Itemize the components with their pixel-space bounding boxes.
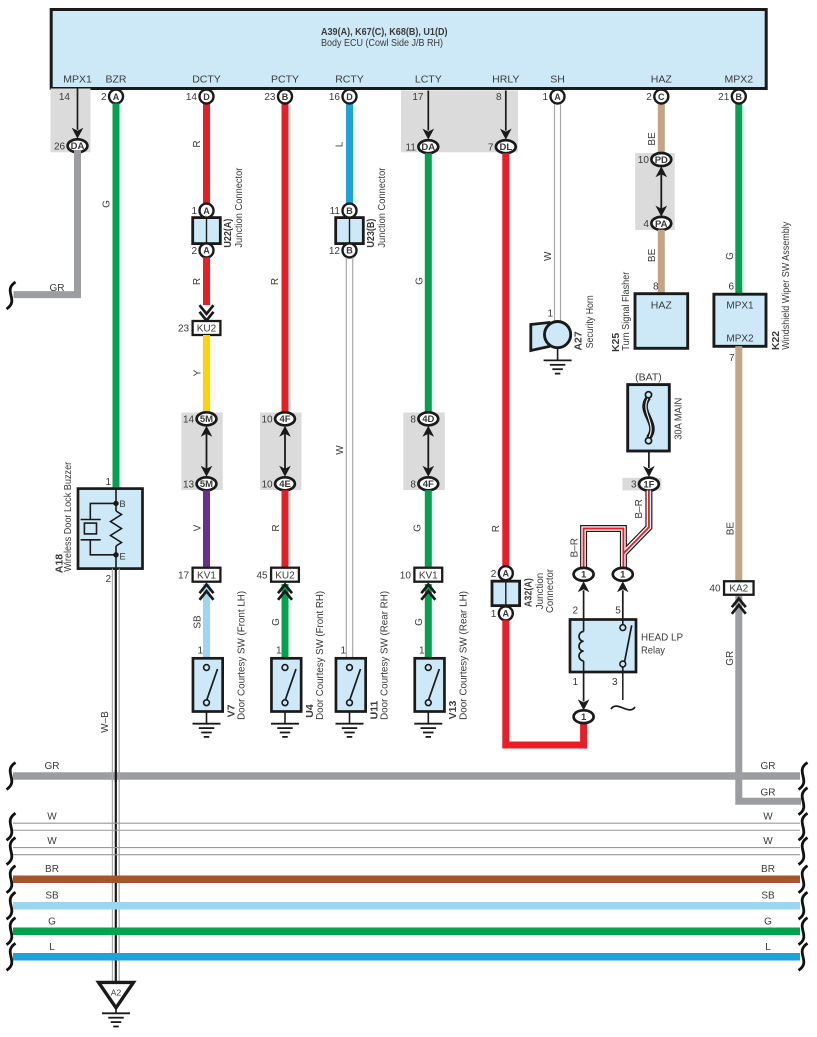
svg-text:23: 23 — [178, 324, 190, 335]
svg-text:A: A — [203, 246, 210, 256]
break symbol left GR wire — [7, 282, 16, 309]
svg-text:2: 2 — [191, 246, 197, 257]
svg-text:KV1: KV1 — [419, 570, 438, 581]
svg-text:14: 14 — [186, 92, 198, 103]
svg-text:PD: PD — [655, 155, 668, 166]
break left G — [7, 918, 16, 945]
wire L RCTY — [346, 104, 353, 204]
svg-text:B: B — [282, 92, 289, 102]
svg-text:RCTY: RCTY — [335, 74, 364, 86]
connector box KV1 pin 10 — [414, 568, 442, 582]
door courtesy switch V13 — [415, 658, 445, 711]
svg-text:13: 13 — [183, 479, 195, 490]
svg-text:L: L — [49, 942, 55, 953]
svg-text:G: G — [413, 524, 424, 532]
connector box KV1 pin 17 — [193, 568, 221, 582]
wire R HRLY upper — [502, 153, 509, 566]
wire BE MPX2 — [735, 346, 742, 581]
svg-text:4F: 4F — [279, 414, 290, 425]
wire HRLY pin8 to DL — [505, 91, 507, 131]
break right W2 — [799, 838, 808, 865]
svg-text:Y: Y — [193, 369, 204, 376]
svg-text:1: 1 — [547, 309, 553, 320]
svg-text:4F: 4F — [423, 479, 434, 490]
bus wire W upper — [13, 822, 800, 824]
svg-text:GR: GR — [45, 761, 60, 772]
svg-text:PA: PA — [655, 219, 668, 230]
break left GR — [7, 763, 16, 790]
svg-text:BE: BE — [647, 248, 658, 262]
svg-text:10: 10 — [638, 155, 650, 166]
bus wire SB — [13, 902, 800, 910]
shaded strip 1F — [622, 478, 661, 491]
connector 4F pin 8 — [418, 477, 438, 490]
shaded area 5M — [181, 413, 223, 491]
svg-text:W: W — [763, 812, 773, 823]
svg-text:SB: SB — [193, 615, 204, 629]
svg-text:26: 26 — [54, 141, 66, 152]
svg-text:HAZ: HAZ — [651, 74, 673, 86]
svg-text:B: B — [736, 92, 743, 102]
svg-text:14: 14 — [59, 92, 71, 103]
svg-text:BZR: BZR — [106, 74, 127, 86]
chevrons below KU2 — [278, 585, 292, 594]
svg-text:HRLY: HRLY — [492, 74, 519, 86]
svg-text:L: L — [335, 141, 346, 147]
svg-text:1F: 1F — [643, 480, 654, 491]
svg-text:B–R: B–R — [570, 538, 581, 557]
svg-text:DL: DL — [499, 142, 512, 153]
connector DL pin 7 — [496, 140, 516, 153]
svg-text:W–B: W–B — [100, 711, 111, 733]
svg-text:(BAT): (BAT) — [635, 372, 662, 384]
svg-text:BE: BE — [647, 132, 658, 146]
svg-text:KV1: KV1 — [197, 570, 216, 581]
svg-text:GR: GR — [761, 761, 776, 772]
svg-text:2: 2 — [572, 606, 578, 617]
break right GR — [799, 763, 808, 790]
turn signal flasher K25 — [635, 294, 688, 349]
break left W2 — [7, 838, 16, 865]
wire G LCTY lower — [425, 490, 432, 567]
svg-text:A: A — [554, 92, 561, 102]
connector 4F pin 10 — [275, 412, 295, 425]
connector 5M pin 14 — [197, 412, 217, 425]
chevrons below KA2 — [732, 599, 746, 608]
arrow relay pin2 to oval — [583, 590, 585, 619]
svg-text:4E: 4E — [279, 479, 291, 490]
svg-text:B: B — [346, 206, 353, 216]
svg-text:Wireless Door Lock Buzzer: Wireless Door Lock Buzzer — [62, 461, 74, 571]
svg-text:10: 10 — [261, 414, 273, 425]
svg-text:14: 14 — [183, 414, 195, 425]
svg-text:1: 1 — [620, 570, 626, 581]
svg-text:11: 11 — [330, 206, 341, 217]
svg-text:W: W — [47, 836, 57, 847]
head lp relay — [570, 620, 636, 673]
svg-text:G: G — [271, 618, 282, 626]
svg-text:21: 21 — [718, 92, 730, 103]
svg-text:3: 3 — [631, 480, 637, 491]
svg-text:Connector: Connector — [544, 569, 556, 613]
svg-text:SH: SH — [550, 74, 565, 86]
shaded area 4D/4F — [403, 413, 445, 491]
connector box KU2 pin 45 — [271, 568, 299, 582]
svg-text:Windshield Wiper SW Assembly: Windshield Wiper SW Assembly — [780, 221, 792, 350]
pin circle C HAZ pin 2 — [654, 90, 668, 104]
connector box KA2 pin 40 — [724, 581, 754, 595]
wire LCTY pin17 to DA — [427, 91, 429, 131]
wire relay pin 3 stub — [611, 672, 635, 710]
wire G to U4 — [282, 584, 289, 658]
svg-text:MPX2: MPX2 — [725, 74, 754, 86]
svg-text:A: A — [503, 609, 510, 619]
arrow relay pin1 to oval — [583, 672, 585, 701]
pin circle A BZR pin 2 — [109, 90, 123, 104]
connector 4D pin 8 — [418, 412, 438, 425]
connector 5M pin 13 — [197, 477, 217, 490]
double arrow 4F-4E — [284, 431, 286, 472]
svg-text:Security Horn: Security Horn — [584, 295, 596, 348]
svg-text:GR: GR — [50, 283, 65, 294]
svg-text:8: 8 — [410, 479, 416, 490]
Body ECU box A39/K67/K68/U1 — [51, 10, 766, 89]
svg-text:E: E — [119, 552, 125, 563]
svg-text:G: G — [102, 200, 113, 208]
connector 1F pin 3 — [639, 478, 659, 491]
svg-text:G: G — [725, 252, 736, 260]
svg-text:G: G — [764, 917, 772, 928]
svg-text:11: 11 — [406, 142, 417, 153]
svg-text:L: L — [765, 942, 771, 953]
break right SB — [799, 892, 808, 919]
wire W-B crossing GR band — [112, 770, 119, 782]
svg-text:W: W — [47, 812, 57, 823]
svg-text:R: R — [270, 278, 281, 285]
svg-text:D: D — [346, 92, 353, 102]
svg-text:30A MAIN: 30A MAIN — [673, 398, 685, 440]
svg-text:KU2: KU2 — [197, 324, 217, 335]
bus wire G — [13, 927, 800, 935]
svg-text:2: 2 — [491, 569, 497, 580]
svg-text:1: 1 — [197, 646, 203, 657]
label HEAD LP Relay — [641, 632, 683, 657]
wire BE HAZ upper — [658, 104, 665, 154]
svg-text:BE: BE — [725, 522, 736, 536]
svg-text:A: A — [503, 569, 510, 579]
pin circle A SH pin 1 — [551, 90, 565, 104]
svg-text:SB: SB — [45, 891, 59, 902]
svg-text:Door Courtesy SW (Rear LH): Door Courtesy SW (Rear LH) — [457, 591, 469, 720]
svg-text:MPX2: MPX2 — [726, 334, 754, 345]
svg-text:10: 10 — [261, 479, 273, 490]
svg-text:40: 40 — [709, 584, 721, 595]
svg-text:A2: A2 — [111, 988, 122, 998]
svg-text:HAZ: HAZ — [651, 300, 673, 312]
svg-text:W: W — [335, 445, 346, 455]
wire GR from KA2 to right edge — [739, 596, 801, 801]
svg-text:1: 1 — [276, 646, 282, 657]
wire W-B from A18 to ground — [112, 569, 119, 982]
svg-text:1: 1 — [581, 712, 587, 723]
break right L — [799, 943, 808, 970]
junction connector U23(B) — [329, 204, 363, 258]
svg-text:C: C — [658, 92, 665, 102]
wire fuse to 1F — [648, 451, 650, 468]
wire R DCTY upper — [203, 104, 210, 204]
wire G to V13 — [425, 584, 432, 658]
svg-text:2: 2 — [646, 92, 652, 103]
svg-text:1: 1 — [491, 609, 497, 620]
break left L — [7, 943, 16, 970]
svg-text:6: 6 — [728, 282, 734, 293]
svg-text:8: 8 — [653, 282, 659, 293]
pin circle B PCTY pin 23 — [278, 90, 292, 104]
break left W1 — [7, 813, 16, 840]
wire Y DCTY — [203, 335, 210, 412]
connector oval 1 right — [613, 568, 633, 581]
svg-text:45: 45 — [256, 570, 268, 581]
shaded area PD/PA — [635, 153, 675, 230]
svg-text:BR: BR — [45, 864, 59, 875]
wire BE HAZ lower — [658, 230, 665, 294]
svg-text:5M: 5M — [200, 479, 213, 490]
connector DA (LCTY) pin 11 — [418, 140, 438, 153]
svg-text:12: 12 — [329, 246, 341, 257]
shaded area 4F/4E — [260, 413, 302, 491]
chevrons below KV1 — [200, 585, 214, 594]
svg-text:4D: 4D — [422, 414, 434, 425]
svg-text:MPX1: MPX1 — [63, 74, 92, 86]
svg-text:SB: SB — [761, 891, 775, 902]
svg-text:16: 16 — [329, 92, 341, 103]
wire R PCTY — [282, 104, 289, 413]
break left SB — [7, 892, 16, 919]
windshield wiper SW assembly K22 — [714, 294, 766, 346]
wire G BZR — [113, 104, 120, 489]
svg-text:PCTY: PCTY — [271, 74, 299, 86]
fuse 30A MAIN — [628, 385, 670, 451]
wire G LCTY — [425, 153, 432, 412]
ground symbol A2 — [115, 1008, 117, 1014]
bus wire L — [13, 953, 800, 961]
pin circle D DCTY pin 14 — [200, 90, 214, 104]
pin circle B MPX2 pin 21 — [732, 90, 746, 104]
svg-text:R: R — [491, 525, 502, 532]
connector box KU2 pin 23 — [193, 321, 221, 335]
svg-text:1: 1 — [340, 646, 346, 657]
door courtesy switch V7 — [193, 658, 223, 711]
svg-text:W: W — [763, 836, 773, 847]
bus wire W lower — [13, 847, 800, 849]
svg-text:A: A — [203, 206, 210, 216]
wireless door lock buzzer A18 — [78, 489, 143, 569]
svg-text:BR: BR — [761, 864, 775, 875]
svg-text:5M: 5M — [200, 414, 213, 425]
svg-text:8: 8 — [496, 92, 502, 103]
svg-text:LCTY: LCTY — [415, 74, 442, 86]
wire B-R from 1F to relay ovals — [584, 491, 649, 570]
bus wire GR — [13, 772, 800, 780]
svg-text:A: A — [113, 92, 120, 102]
svg-text:G: G — [48, 917, 56, 928]
connector oval 1 bottom — [574, 710, 594, 723]
wire V DCTY — [203, 490, 210, 567]
break right W1 — [799, 813, 808, 840]
connector PD pin 10 — [651, 153, 671, 166]
svg-text:8: 8 — [410, 414, 416, 425]
wire R DCTY lower — [203, 257, 210, 305]
pin circle D RCTY pin 16 — [343, 90, 357, 104]
svg-text:2: 2 — [105, 574, 111, 585]
connector PA pin 4 — [651, 217, 671, 230]
svg-text:1: 1 — [542, 92, 548, 103]
svg-text:2: 2 — [101, 92, 107, 103]
svg-text:KA2: KA2 — [729, 584, 748, 595]
svg-text:1: 1 — [105, 477, 111, 488]
svg-text:5: 5 — [615, 606, 621, 617]
svg-text:D: D — [203, 92, 210, 102]
svg-text:23: 23 — [264, 92, 276, 103]
svg-text:7: 7 — [488, 142, 494, 153]
svg-text:R: R — [271, 524, 282, 531]
svg-text:3: 3 — [612, 677, 618, 688]
door courtesy switch U4 — [271, 658, 301, 711]
svg-text:DCTY: DCTY — [192, 74, 221, 86]
svg-text:17: 17 — [178, 570, 190, 581]
break left BR — [7, 866, 16, 893]
connector DA (MPX1) pin 26 — [68, 139, 88, 152]
break right GR2 — [799, 788, 808, 815]
wire MPX1 pin14 to DA — [77, 89, 79, 130]
security horn A27 — [531, 322, 572, 374]
connector 4E pin 10 — [275, 477, 295, 490]
svg-text:MPX1: MPX1 — [726, 301, 754, 312]
shaded connector area LCTY HRLY — [401, 91, 518, 153]
svg-text:B: B — [346, 246, 353, 256]
svg-text:B–R: B–R — [634, 499, 645, 518]
double arrow 5M — [206, 431, 208, 472]
MPX1 shaded connector area — [51, 89, 91, 153]
svg-text:Door Courtesy SW (Front LH): Door Courtesy SW (Front LH) — [236, 591, 248, 720]
wire R HRLY to relay oval — [506, 620, 584, 745]
svg-text:DA: DA — [421, 142, 435, 153]
chevrons into KU2 — [200, 312, 214, 321]
svg-text:KU2: KU2 — [275, 570, 295, 581]
svg-text:4: 4 — [643, 219, 649, 230]
arrow relay pin5 to oval — [622, 590, 624, 619]
junction connector A32(A) — [491, 566, 520, 620]
ground triangle A2 — [99, 982, 134, 1007]
svg-text:7: 7 — [729, 353, 735, 364]
svg-text:Relay: Relay — [641, 645, 666, 657]
chevrons below KV1 LCTY — [421, 585, 435, 594]
double arrow PD-PA — [660, 171, 662, 211]
svg-text:V: V — [193, 524, 204, 531]
svg-text:R: R — [192, 278, 203, 285]
svg-text:Door Courtesy SW (Rear RH): Door Courtesy SW (Rear RH) — [379, 591, 391, 720]
wire SB to V7 — [203, 584, 210, 658]
svg-text:Turn Signal Flasher: Turn Signal Flasher — [620, 271, 632, 350]
double arrow 4D-4F — [427, 431, 429, 472]
svg-text:Door Courtesy SW (Front RH): Door Courtesy SW (Front RH) — [314, 591, 326, 720]
wire W SH to horn — [554, 104, 556, 323]
svg-text:Junction Connector: Junction Connector — [233, 167, 245, 247]
svg-text:HEAD LP: HEAD LP — [641, 632, 683, 644]
svg-text:1: 1 — [572, 677, 578, 688]
connector oval 1 left — [574, 568, 594, 581]
svg-text:10: 10 — [400, 570, 412, 581]
svg-text:B: B — [119, 499, 125, 510]
svg-text:A27: A27 — [573, 331, 585, 350]
junction connector U22(A) — [191, 204, 220, 258]
svg-text:1: 1 — [419, 646, 425, 657]
svg-text:Body ECU (Cowl Side J/B RH): Body ECU (Cowl Side J/B RH) — [321, 37, 443, 49]
svg-text:Junction Connector: Junction Connector — [376, 167, 388, 247]
svg-text:GR: GR — [725, 651, 736, 666]
break right BR — [799, 866, 808, 893]
svg-text:1: 1 — [581, 570, 587, 581]
svg-text:GR: GR — [761, 788, 776, 799]
svg-text:1: 1 — [191, 206, 197, 217]
door courtesy switch U11 — [336, 658, 366, 711]
svg-text:W: W — [543, 251, 554, 261]
svg-text:A32(A): A32(A) — [522, 578, 534, 607]
break right G — [799, 918, 808, 945]
svg-text:G: G — [414, 618, 425, 626]
wire W RCTY to U11 — [345, 257, 347, 658]
svg-text:17: 17 — [412, 92, 424, 103]
svg-text:G: G — [415, 277, 426, 285]
wire G MPX2 — [735, 104, 742, 295]
wire R PCTY lower — [282, 490, 289, 567]
bus wire BR — [13, 875, 800, 883]
svg-text:R: R — [192, 140, 203, 147]
wire GR from DA to left edge — [14, 150, 78, 295]
